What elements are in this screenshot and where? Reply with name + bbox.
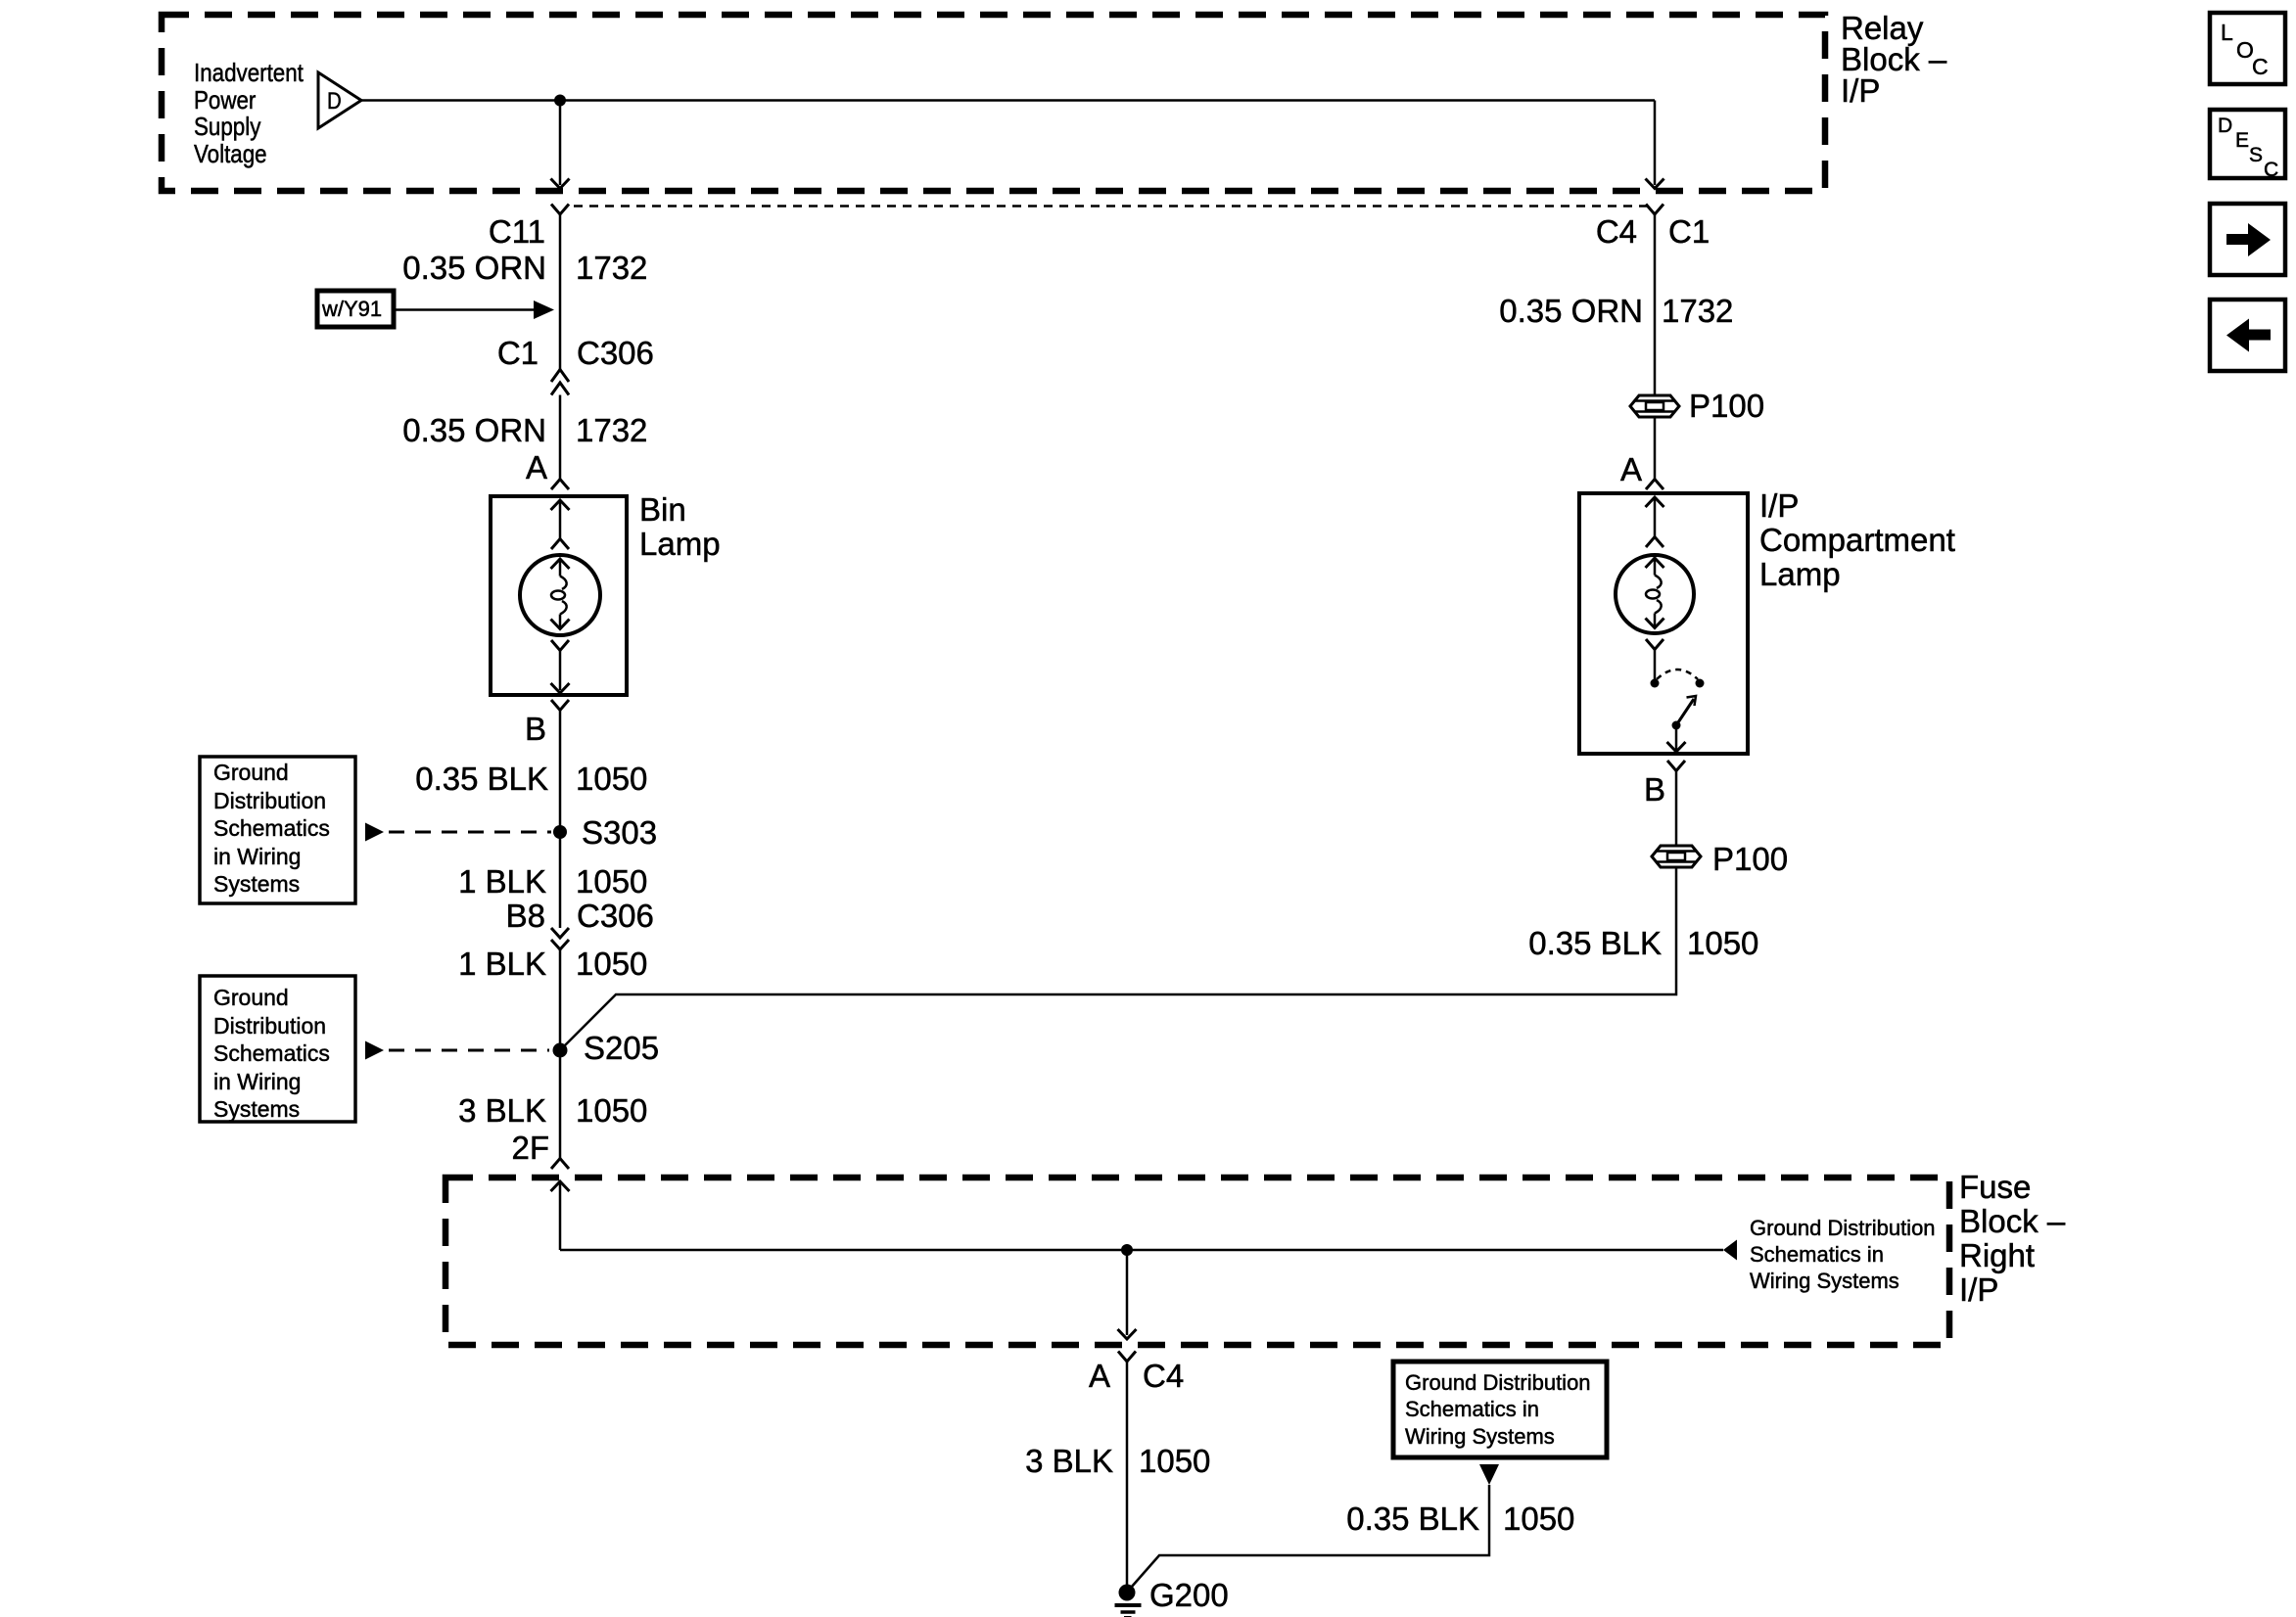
connector label C306 (lower) xyxy=(577,900,654,932)
wire - P100 to S205 (0.35 BLK 1050) xyxy=(560,867,1676,1050)
reference arrow from Ground Distribution box (bottom) xyxy=(1479,1464,1499,1485)
icon letter C (DESC) xyxy=(2264,160,2278,180)
arrowhead into relay block edge at C11 xyxy=(551,179,570,189)
wire label 0.35 BLK (to G200) xyxy=(1088,1502,1479,1535)
wire label 3 BLK xyxy=(155,1094,546,1127)
I/P lamp switch second contact dot xyxy=(1696,679,1705,688)
circuit number 1050 (right) xyxy=(1687,927,1758,959)
I/P lamp internal arrow from pin A xyxy=(1646,497,1664,507)
icon letter L (LOC) xyxy=(2221,22,2233,44)
terminal fork at fuse block 2F xyxy=(551,1159,569,1170)
circuit number 1050 (bottom) xyxy=(1503,1502,1574,1535)
circuit number 1050 (to G200) xyxy=(1139,1445,1210,1477)
terminal fork C11 xyxy=(551,205,569,215)
wire - 0.35 BLK 1050 branch to G200 (diagonal) xyxy=(1131,1485,1489,1588)
terminal fork at Bin Lamp pin B xyxy=(551,700,569,711)
ground distribution reference box (S205) xyxy=(200,976,355,1122)
connector label C4 (fuse block) xyxy=(1143,1360,1184,1392)
leader arrow to S303 xyxy=(365,823,384,842)
wire label 1 BLK (to S205) xyxy=(155,947,546,980)
I/P compartment lamp box xyxy=(1579,493,1748,754)
fuse block - right I/P dashed outline xyxy=(445,1178,1949,1345)
icon letter O (LOC) xyxy=(2236,39,2254,62)
circuit number 1050 (0.35 BLK) xyxy=(576,762,647,795)
wire label 0.35 ORN (C11) xyxy=(155,252,546,284)
circuit number 1732 (to lamp) xyxy=(576,414,647,446)
wire - C1 to P100 (0.35 ORN 1732) xyxy=(1654,214,1657,395)
I/P lamp switch fixed contact dot xyxy=(1651,679,1660,688)
w/Y91 option box xyxy=(317,291,394,327)
wire - inadvertent power feed horizontal xyxy=(361,99,1655,102)
wire - fuse block A to G200 (3 BLK 1050) xyxy=(1126,1362,1129,1585)
terminal fork at Bin Lamp pin A xyxy=(551,480,569,490)
wire label 3 BLK (to G200) xyxy=(722,1445,1113,1477)
relay block connector boundary (thin dashed) xyxy=(574,205,1647,208)
pin label C11 xyxy=(154,215,545,248)
icon letter E (DESC) xyxy=(2235,130,2249,151)
option label w/Y91 xyxy=(322,299,382,320)
terminal fork at I/P lamp pin B xyxy=(1667,761,1685,771)
arrowhead into relay block edge at C4 xyxy=(1646,179,1664,189)
power feed triangle D (Inadvertent Power Supply Voltage) xyxy=(318,72,361,128)
grommet P100 (upper) xyxy=(1630,395,1679,417)
reference arrow to Ground Distribution Schematics xyxy=(1723,1240,1737,1261)
wire label 1 BLK (S303) xyxy=(155,865,546,898)
pin label C1 (C306 upper) xyxy=(147,337,539,369)
wire - drop to C4/C1 xyxy=(1654,101,1657,186)
circuit number 1732 (C11) xyxy=(576,252,647,284)
icon letter S (DESC) xyxy=(2249,145,2263,165)
I/P lamp filament xyxy=(1655,576,1662,589)
wire - fuse block internal ground bus xyxy=(560,1249,1723,1252)
pin label C4 (relay block) xyxy=(1245,215,1637,248)
connector label C306 (upper) xyxy=(577,337,654,369)
I/P lamp switch arm xyxy=(1676,699,1694,725)
junction dot - ground bus split xyxy=(1121,1244,1133,1256)
pin label C1 (relay block) xyxy=(1668,215,1710,248)
triangle label D xyxy=(327,90,342,114)
I/P lamp internal fork above bulb xyxy=(1646,537,1663,548)
ground G200 symbol bars xyxy=(1115,1603,1142,1607)
connector C306 pin B8 (inline, down) xyxy=(551,928,569,938)
wire - C306 to Bin Lamp pin A (0.35 ORN 1732) xyxy=(559,395,562,480)
I/P lamp internal arrow to pin B xyxy=(1675,725,1678,751)
bin lamp filament xyxy=(560,577,567,590)
I/P lamp fork below bulb xyxy=(1646,639,1663,650)
circuit number 1732 (right) xyxy=(1662,295,1733,327)
bin lamp internal fork below bulb xyxy=(551,640,569,651)
block label Fuse Block - Right I/P xyxy=(1959,1170,2065,1307)
arrowhead at fuse block bottom edge xyxy=(1118,1329,1137,1339)
I/P lamp bulb circle xyxy=(1616,555,1694,633)
block label Relay Block - I/P xyxy=(1841,13,1946,107)
pin label B (I/P lamp) xyxy=(1274,773,1665,806)
connector C306 pin C1 (inline, up) xyxy=(551,370,569,383)
w/Y91 pointer arrow xyxy=(394,308,535,311)
wire label 0.35 ORN (right) xyxy=(1251,295,1643,327)
splice S205 junction dot xyxy=(553,1043,568,1058)
wire - Bin Lamp B to S303 (0.35 BLK 1050) xyxy=(559,711,562,929)
component label I/P Compartment Lamp xyxy=(1759,488,1955,591)
grommet P100 (lower) xyxy=(1652,846,1701,867)
junction dot - feed split xyxy=(554,95,566,107)
wire - C11 to connector C306 (0.35 ORN 1732) xyxy=(559,214,562,369)
splice label S205 xyxy=(584,1032,659,1064)
wire label 0.35 BLK (right) xyxy=(1270,927,1662,959)
bin lamp internal arrow to pin B xyxy=(551,683,570,693)
wire - C306 B8 to S205 (1 BLK 1050) xyxy=(559,949,562,1159)
ground G200 dot xyxy=(1119,1585,1136,1601)
bin lamp internal fork above bulb xyxy=(551,539,569,550)
I/P lamp switch travel arc (dashed) xyxy=(1657,670,1698,679)
reference text Ground Distribution (fuse block) xyxy=(1750,1215,1936,1295)
grommet label P100 (lower) xyxy=(1712,843,1788,875)
ground label G200 xyxy=(1149,1579,1229,1611)
icon letter C (LOC) xyxy=(2252,56,2269,78)
icon box DESC xyxy=(2210,110,2285,178)
pin label A (fuse block) xyxy=(719,1360,1110,1392)
circuit number 1050 (S303) xyxy=(576,865,647,898)
bin lamp bulb top arrow xyxy=(551,559,570,569)
circuit number 1050 (to S205) xyxy=(576,947,647,980)
wire label 0.35 ORN (to lamp) xyxy=(155,414,546,446)
pin label A (Bin Lamp) xyxy=(156,451,547,484)
terminal fork at I/P lamp pin A xyxy=(1646,480,1663,490)
reference text Ground Distribution (S303) xyxy=(213,759,330,899)
icon box forward arrow xyxy=(2210,204,2285,275)
pin label A (I/P lamp) xyxy=(1250,453,1642,485)
arrowhead into fuse block at 2F xyxy=(551,1181,570,1191)
bin lamp bulb circle xyxy=(520,555,600,635)
component label Bin Lamp xyxy=(639,492,721,561)
splice S303 junction dot xyxy=(553,825,567,839)
wire - P100 to I/P compartment lamp pin A xyxy=(1654,417,1657,479)
ground distribution reference box (bottom) xyxy=(1393,1362,1607,1457)
wire - I/P lamp B to P100 lower xyxy=(1675,771,1678,847)
terminal fork at fuse block pin A xyxy=(1118,1352,1136,1363)
bin lamp internal arrow from pin A xyxy=(551,500,570,510)
source label Inadvertent Power Supply Voltage xyxy=(194,60,304,168)
pin label 2F xyxy=(158,1132,549,1164)
reference text Ground Distribution (G200) xyxy=(1405,1369,1591,1451)
wire label 0.35 BLK xyxy=(157,762,548,795)
reference text Ground Distribution (S205) xyxy=(213,984,330,1124)
icon letter D (DESC) xyxy=(2218,115,2232,136)
I/P lamp switch pivot dot xyxy=(1672,721,1681,730)
bin lamp box xyxy=(491,496,627,695)
grommet label P100 (upper) xyxy=(1689,390,1764,422)
ground distribution reference box (S303) xyxy=(200,757,355,903)
I/P lamp bulb bottom arrow xyxy=(1654,614,1657,628)
terminal fork C1 (relay block right) xyxy=(1646,205,1663,215)
splice label S303 xyxy=(582,816,657,849)
I/P lamp bulb top arrow xyxy=(1646,558,1664,568)
circuit number 1050 (3 BLK) xyxy=(576,1094,647,1127)
leader arrow to S205 xyxy=(365,1041,384,1060)
wire - drop to C11 xyxy=(559,101,562,186)
relay block - I/P dashed outline xyxy=(162,15,1825,191)
icon box back arrow xyxy=(2210,300,2285,371)
wire - ground bus drop to C4 xyxy=(1126,1250,1129,1335)
pin label B8 (C306 lower) xyxy=(154,900,545,932)
pin label B (Bin Lamp) xyxy=(155,713,546,745)
bin lamp bulb bottom arrow xyxy=(559,615,562,629)
